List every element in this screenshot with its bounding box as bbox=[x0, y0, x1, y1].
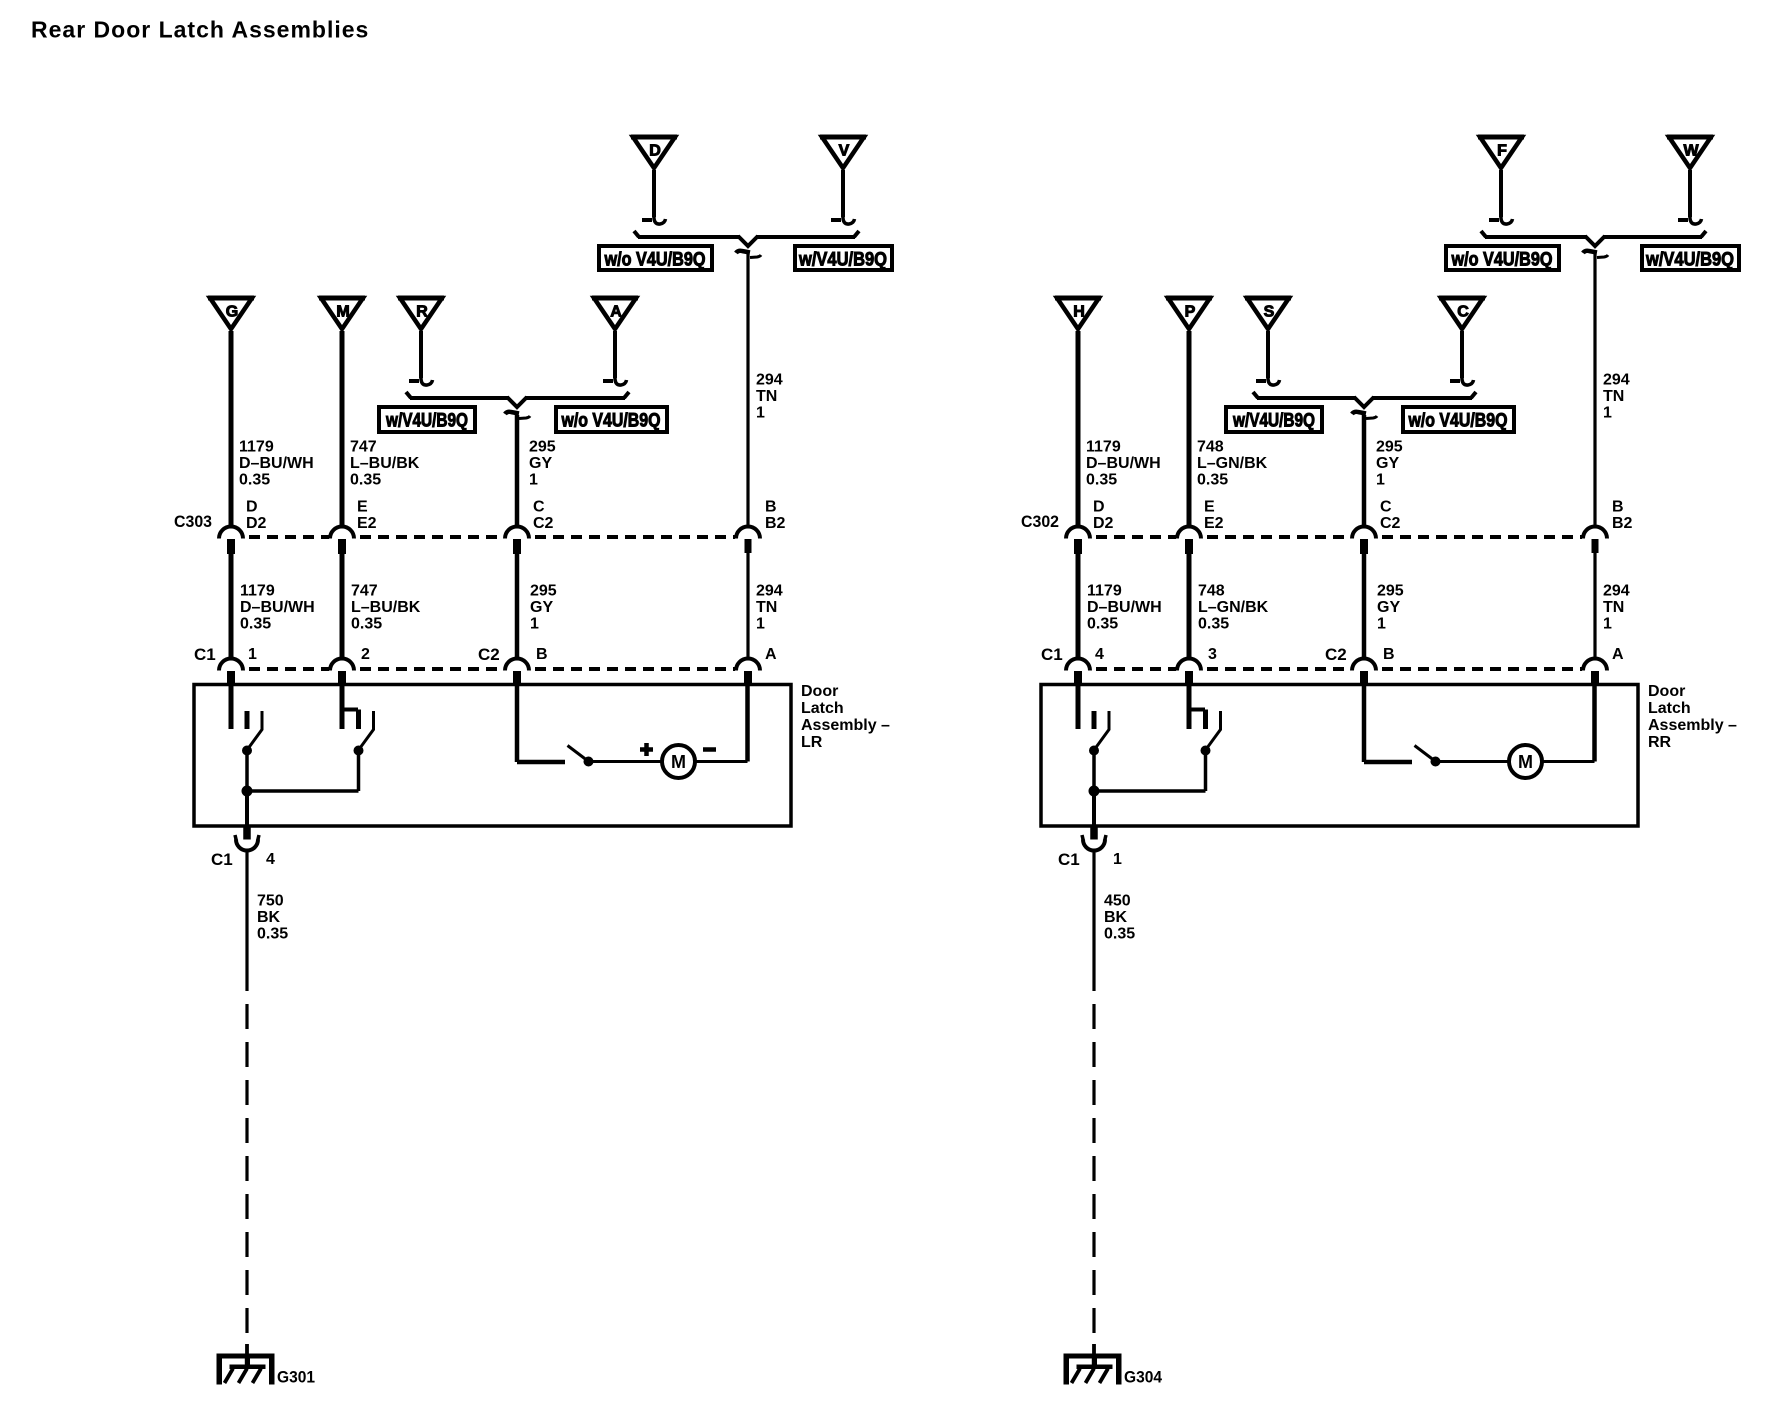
wire 295 GY upper bbox=[1362, 415, 1367, 527]
svg-text:1: 1 bbox=[756, 405, 765, 422]
svg-text:1: 1 bbox=[1603, 616, 1612, 633]
motor M bbox=[662, 745, 695, 778]
svg-text:V: V bbox=[839, 143, 850, 160]
pin B B2 bbox=[765, 499, 786, 532]
svg-text:w/V4U/B9Q: w/V4U/B9Q bbox=[798, 250, 887, 271]
label 295 upper bbox=[529, 439, 556, 489]
svg-text:295: 295 bbox=[1377, 583, 1404, 600]
polarity + bbox=[640, 743, 653, 756]
svg-text:W: W bbox=[1683, 143, 1699, 160]
svg-text:D–BU/WH: D–BU/WH bbox=[239, 455, 314, 472]
svg-text:1: 1 bbox=[530, 616, 539, 633]
connector C2 label bbox=[1325, 645, 1347, 664]
label 747 lower bbox=[351, 583, 421, 633]
connector triangle C bbox=[1439, 298, 1485, 329]
option label w/o V4U/B9Q mid bbox=[1403, 407, 1514, 432]
label 294 lower bbox=[756, 583, 783, 633]
svg-text:GY: GY bbox=[530, 599, 553, 616]
svg-text:294: 294 bbox=[1603, 372, 1630, 389]
svg-text:0.35: 0.35 bbox=[240, 616, 271, 633]
connector C1 label bbox=[194, 645, 216, 664]
svg-text:L–BU/BK: L–BU/BK bbox=[350, 455, 420, 472]
label 1179 lower bbox=[240, 583, 315, 633]
wire 1179 upper bbox=[1076, 331, 1081, 527]
svg-text:295: 295 bbox=[529, 439, 556, 456]
svg-text:Assembly –: Assembly – bbox=[801, 717, 890, 734]
pin 2 bbox=[361, 646, 370, 663]
wire switch to motor bbox=[592, 760, 662, 763]
label 294 lower bbox=[1603, 583, 1630, 633]
svg-text:B: B bbox=[536, 646, 548, 663]
pin A bbox=[1612, 646, 1624, 663]
svg-text:C: C bbox=[1380, 499, 1392, 516]
svg-text:GY: GY bbox=[529, 455, 552, 472]
hook C bbox=[1450, 376, 1474, 385]
svg-text:D2: D2 bbox=[246, 515, 267, 532]
connector triangle V bbox=[820, 137, 866, 168]
svg-text:E: E bbox=[1204, 499, 1215, 516]
ground G304 bbox=[1064, 1354, 1121, 1384]
svg-text:294: 294 bbox=[1603, 583, 1630, 600]
svg-text:C2: C2 bbox=[533, 515, 554, 532]
connector triangle S bbox=[1245, 298, 1291, 329]
label 1179 lower bbox=[1087, 583, 1162, 633]
svg-text:1179: 1179 bbox=[1087, 583, 1122, 600]
hook V bbox=[831, 215, 855, 224]
branch hook top bbox=[1583, 251, 1608, 258]
svg-text:P: P bbox=[1185, 304, 1196, 321]
motor switch bbox=[568, 746, 594, 767]
door latch assembly box RR bbox=[1041, 685, 1638, 827]
svg-text:G304: G304 bbox=[1124, 1368, 1162, 1387]
svg-text:0.35: 0.35 bbox=[1086, 472, 1117, 489]
svg-text:C: C bbox=[1457, 304, 1469, 321]
option bus top bbox=[634, 231, 859, 246]
svg-text:294: 294 bbox=[756, 372, 783, 389]
svg-text:1: 1 bbox=[1377, 616, 1386, 633]
label 748 upper bbox=[1197, 439, 1268, 489]
label 295 lower bbox=[1377, 583, 1404, 633]
label 748 lower bbox=[1198, 583, 1269, 633]
svg-text:C302: C302 bbox=[1021, 512, 1059, 531]
pin C C2 bbox=[1380, 499, 1401, 532]
pin 3 bbox=[1208, 646, 1217, 663]
svg-text:0.35: 0.35 bbox=[1198, 616, 1229, 633]
connector triangle D bbox=[631, 137, 677, 168]
ground pin stub bbox=[1091, 826, 1098, 839]
option bus mid bbox=[1253, 392, 1476, 407]
svg-text:B2: B2 bbox=[1612, 515, 1633, 532]
wire 747 upper bbox=[340, 331, 345, 527]
wire 750 BK upper bbox=[245, 852, 248, 992]
svg-text:295: 295 bbox=[1376, 439, 1403, 456]
svg-text:M: M bbox=[671, 752, 686, 772]
pin 1 bbox=[248, 646, 257, 663]
ground pin stub bbox=[244, 826, 251, 839]
connector triangle M bbox=[319, 298, 365, 329]
label 294 upper bbox=[1603, 372, 1630, 422]
svg-text:C1: C1 bbox=[1058, 850, 1080, 869]
svg-text:Door: Door bbox=[1648, 683, 1685, 700]
svg-text:0.35: 0.35 bbox=[1087, 616, 1118, 633]
connector C1 bottom bbox=[235, 835, 259, 851]
connector C1 bottom bbox=[1082, 835, 1106, 851]
wire pin B to switch bbox=[1364, 685, 1412, 762]
svg-text:GY: GY bbox=[1377, 599, 1400, 616]
wire 294 TN bbox=[746, 254, 749, 527]
svg-text:0.35: 0.35 bbox=[1197, 472, 1228, 489]
label G304 bbox=[1124, 1368, 1162, 1387]
label Door Latch Assembly RR bbox=[1648, 683, 1737, 751]
connector C1 C2 row bbox=[1066, 659, 1607, 686]
svg-text:TN: TN bbox=[756, 388, 777, 405]
connector C1 bottom labels bbox=[211, 850, 275, 869]
connector C2 label bbox=[478, 645, 500, 664]
svg-text:G: G bbox=[226, 304, 238, 321]
svg-text:E2: E2 bbox=[1204, 515, 1224, 532]
svg-text:RR: RR bbox=[1648, 734, 1672, 751]
pin E E2 bbox=[357, 499, 377, 532]
ground G301 bbox=[217, 1354, 274, 1384]
option label w/o V4U/B9Q mid bbox=[556, 407, 667, 432]
svg-text:LR: LR bbox=[801, 734, 823, 751]
svg-text:0.35: 0.35 bbox=[350, 472, 381, 489]
svg-text:C303: C303 bbox=[174, 512, 212, 531]
svg-text:TN: TN bbox=[1603, 599, 1624, 616]
wire 450 BK upper bbox=[1092, 852, 1095, 992]
label Door Latch Assembly LR bbox=[801, 683, 890, 751]
svg-text:C: C bbox=[533, 499, 545, 516]
wire stem F bbox=[1499, 170, 1503, 217]
option label w/V4U/B9Q mid bbox=[1226, 407, 1322, 432]
svg-text:1: 1 bbox=[248, 646, 257, 663]
svg-text:M: M bbox=[1518, 752, 1533, 772]
switch S1 bbox=[231, 685, 262, 791]
connector C1 bottom labels bbox=[1058, 850, 1122, 869]
svg-text:0.35: 0.35 bbox=[239, 472, 270, 489]
svg-text:1: 1 bbox=[529, 472, 538, 489]
svg-text:D: D bbox=[649, 143, 661, 160]
wire into ground bbox=[1092, 1344, 1096, 1358]
wire stem D bbox=[652, 170, 656, 217]
wire 748 lower bbox=[1187, 553, 1192, 659]
hook S bbox=[1256, 376, 1280, 385]
motor M bbox=[1509, 745, 1542, 778]
connector C302 label bbox=[1021, 512, 1059, 531]
connector C302 bbox=[1066, 527, 1607, 554]
wire to ground pin bbox=[245, 791, 249, 826]
option label w/V4U/B9Q mid bbox=[379, 407, 475, 432]
hook R bbox=[409, 376, 433, 385]
svg-text:295: 295 bbox=[530, 583, 557, 600]
wire 295 GY upper bbox=[515, 415, 520, 527]
pin A bbox=[765, 646, 777, 663]
switch S2 bbox=[340, 685, 374, 789]
wire 1179 upper bbox=[229, 331, 234, 527]
svg-text:Rear Door Latch Assemblies: Rear Door Latch Assemblies bbox=[31, 17, 369, 43]
svg-text:Assembly –: Assembly – bbox=[1648, 717, 1737, 734]
wire 294 lower bbox=[1593, 552, 1596, 659]
svg-text:1179: 1179 bbox=[1086, 439, 1121, 456]
svg-text:747: 747 bbox=[351, 583, 378, 600]
label 450 BK bbox=[1104, 893, 1135, 943]
label G301 bbox=[277, 1368, 315, 1387]
svg-text:A: A bbox=[610, 304, 622, 321]
wire 294 TN bbox=[1593, 254, 1596, 527]
polarity - bbox=[703, 747, 716, 752]
svg-text:Door: Door bbox=[801, 683, 838, 700]
svg-text:L–GN/BK: L–GN/BK bbox=[1197, 455, 1268, 472]
svg-text:Latch: Latch bbox=[801, 700, 844, 717]
svg-text:2: 2 bbox=[361, 646, 370, 663]
hook D bbox=[642, 215, 666, 224]
svg-text:0.35: 0.35 bbox=[1104, 926, 1135, 943]
svg-text:L–GN/BK: L–GN/BK bbox=[1198, 599, 1269, 616]
wire stem C bbox=[1460, 331, 1464, 378]
svg-text:TN: TN bbox=[1603, 388, 1624, 405]
svg-text:GY: GY bbox=[1376, 455, 1399, 472]
svg-text:C1: C1 bbox=[194, 645, 216, 664]
wire pin B to switch bbox=[517, 685, 565, 762]
option bus top bbox=[1481, 231, 1706, 246]
connector triangle P bbox=[1166, 298, 1212, 329]
wire 1179 lower bbox=[229, 553, 234, 659]
connector triangle A bbox=[592, 298, 638, 329]
switch S2 bbox=[1187, 685, 1221, 789]
option bus mid bbox=[406, 392, 629, 407]
svg-text:E: E bbox=[357, 499, 368, 516]
wire stem A bbox=[613, 331, 617, 378]
label 295 lower bbox=[530, 583, 557, 633]
svg-text:w/o V4U/B9Q: w/o V4U/B9Q bbox=[1408, 411, 1508, 432]
svg-text:1: 1 bbox=[1376, 472, 1385, 489]
wire motor to pin A bbox=[695, 685, 748, 762]
wire 748 upper bbox=[1187, 331, 1192, 527]
pin B bbox=[536, 646, 548, 663]
svg-text:D: D bbox=[246, 499, 258, 516]
pin 4 bbox=[1095, 646, 1104, 663]
option label w/o V4U/B9Q top bbox=[599, 246, 712, 271]
option label w/o V4U/B9Q top bbox=[1446, 246, 1559, 271]
wire stem W bbox=[1688, 170, 1692, 217]
svg-text:1: 1 bbox=[1113, 851, 1122, 868]
svg-text:4: 4 bbox=[266, 851, 275, 868]
svg-text:Latch: Latch bbox=[1648, 700, 1691, 717]
svg-text:w/o V4U/B9Q: w/o V4U/B9Q bbox=[561, 411, 661, 432]
branch hook mid bbox=[1352, 412, 1377, 419]
wire 1179 lower bbox=[1076, 553, 1081, 659]
svg-text:w/V4U/B9Q: w/V4U/B9Q bbox=[385, 411, 468, 432]
svg-text:294: 294 bbox=[756, 583, 783, 600]
motor switch bbox=[1415, 746, 1441, 767]
svg-text:S: S bbox=[1264, 304, 1275, 321]
wire motor to pin A bbox=[1542, 685, 1595, 762]
connector triangle G bbox=[208, 298, 254, 329]
svg-text:R: R bbox=[416, 304, 428, 321]
svg-text:M: M bbox=[336, 304, 349, 321]
svg-text:748: 748 bbox=[1197, 439, 1224, 456]
label 1179 upper bbox=[1086, 439, 1161, 489]
branch hook top bbox=[736, 251, 761, 258]
svg-text:4: 4 bbox=[1095, 646, 1104, 663]
svg-text:0.35: 0.35 bbox=[257, 926, 288, 943]
svg-text:C2: C2 bbox=[478, 645, 500, 664]
svg-text:B: B bbox=[1383, 646, 1395, 663]
svg-text:C2: C2 bbox=[1380, 515, 1401, 532]
svg-text:D–BU/WH: D–BU/WH bbox=[1087, 599, 1162, 616]
title bbox=[31, 17, 369, 43]
wire 295 lower bbox=[1362, 553, 1367, 659]
hook F bbox=[1489, 215, 1513, 224]
wire 747 lower bbox=[340, 553, 345, 659]
wire 295 lower bbox=[515, 553, 520, 659]
wire switch to motor bbox=[1439, 760, 1509, 763]
svg-text:E2: E2 bbox=[357, 515, 377, 532]
junction node bbox=[242, 786, 359, 796]
svg-text:BK: BK bbox=[1104, 909, 1128, 926]
svg-text:TN: TN bbox=[756, 599, 777, 616]
svg-text:w/o V4U/B9Q: w/o V4U/B9Q bbox=[604, 250, 706, 271]
svg-text:D–BU/WH: D–BU/WH bbox=[1086, 455, 1161, 472]
option label w/V4U/B9Q top bbox=[795, 246, 892, 271]
wire stem S bbox=[1266, 331, 1270, 378]
pin E E2 bbox=[1204, 499, 1224, 532]
svg-text:F: F bbox=[1497, 143, 1507, 160]
pin B bbox=[1383, 646, 1395, 663]
svg-text:w/V4U/B9Q: w/V4U/B9Q bbox=[1232, 411, 1315, 432]
hook W bbox=[1678, 215, 1702, 224]
svg-text:B2: B2 bbox=[765, 515, 786, 532]
svg-text:450: 450 bbox=[1104, 893, 1131, 910]
connector triangle F bbox=[1478, 137, 1524, 168]
svg-text:0.35: 0.35 bbox=[351, 616, 382, 633]
label 295 upper bbox=[1376, 439, 1403, 489]
connector C1 C2 row bbox=[219, 659, 760, 686]
door latch assembly box LR bbox=[194, 685, 791, 827]
svg-text:1179: 1179 bbox=[239, 439, 274, 456]
wire stem R bbox=[419, 331, 423, 378]
label 1179 upper bbox=[239, 439, 314, 489]
wire into ground bbox=[245, 1344, 249, 1358]
pin C C2 bbox=[533, 499, 554, 532]
svg-text:G301: G301 bbox=[277, 1368, 315, 1387]
svg-text:3: 3 bbox=[1208, 646, 1217, 663]
connector C1 label bbox=[1041, 645, 1063, 664]
connector triangle H bbox=[1055, 298, 1101, 329]
branch hook mid bbox=[505, 412, 530, 419]
junction node bbox=[1089, 786, 1206, 796]
svg-text:A: A bbox=[1612, 646, 1624, 663]
svg-text:B: B bbox=[1612, 499, 1624, 516]
svg-text:H: H bbox=[1073, 304, 1085, 321]
pin B B2 bbox=[1612, 499, 1633, 532]
svg-text:1: 1 bbox=[756, 616, 765, 633]
svg-text:D: D bbox=[1093, 499, 1105, 516]
wire 750 BK dashed bbox=[245, 1004, 248, 1344]
wire stem V bbox=[841, 170, 845, 217]
svg-text:B: B bbox=[765, 499, 777, 516]
svg-text:C1: C1 bbox=[1041, 645, 1063, 664]
connector triangle W bbox=[1667, 137, 1713, 168]
svg-text:1: 1 bbox=[1603, 405, 1612, 422]
label 294 upper bbox=[756, 372, 783, 422]
label 750 BK bbox=[257, 893, 288, 943]
svg-text:750: 750 bbox=[257, 893, 284, 910]
connector triangle R bbox=[398, 298, 444, 329]
svg-text:w/V4U/B9Q: w/V4U/B9Q bbox=[1645, 250, 1734, 271]
connector C303 label bbox=[174, 512, 212, 531]
switch S1 bbox=[1078, 685, 1109, 791]
connector C303 bbox=[219, 527, 760, 554]
svg-text:C2: C2 bbox=[1325, 645, 1347, 664]
svg-text:747: 747 bbox=[350, 439, 377, 456]
svg-text:748: 748 bbox=[1198, 583, 1225, 600]
label 747 upper bbox=[350, 439, 420, 489]
svg-text:BK: BK bbox=[257, 909, 281, 926]
wire 294 lower bbox=[746, 552, 749, 659]
svg-text:D–BU/WH: D–BU/WH bbox=[240, 599, 315, 616]
svg-text:L–BU/BK: L–BU/BK bbox=[351, 599, 421, 616]
svg-text:C1: C1 bbox=[211, 850, 233, 869]
svg-text:A: A bbox=[765, 646, 777, 663]
svg-text:1179: 1179 bbox=[240, 583, 275, 600]
wire to ground pin bbox=[1092, 791, 1096, 826]
hook A bbox=[603, 376, 627, 385]
pin D D2 bbox=[246, 499, 267, 532]
wire 450 BK dashed bbox=[1092, 1004, 1095, 1344]
svg-text:w/o V4U/B9Q: w/o V4U/B9Q bbox=[1451, 250, 1553, 271]
svg-text:D2: D2 bbox=[1093, 515, 1114, 532]
pin D D2 bbox=[1093, 499, 1114, 532]
option label w/V4U/B9Q top bbox=[1642, 246, 1739, 271]
